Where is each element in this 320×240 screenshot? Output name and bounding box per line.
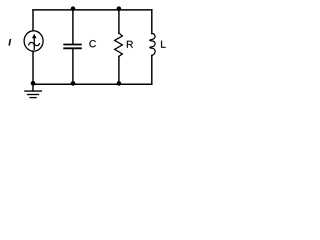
wire capacitor bottom lead bbox=[72, 49, 74, 84]
ground bar 2 bbox=[28, 94, 39, 96]
current source arrowhead bbox=[32, 34, 37, 38]
node dot top resistor bbox=[117, 6, 122, 11]
resistor R zigzag bbox=[115, 33, 123, 56]
node dot top capacitor bbox=[71, 6, 76, 11]
label I bbox=[8, 39, 11, 46]
wire inductor top lead bbox=[151, 10, 153, 34]
wire resistor top lead bbox=[118, 10, 120, 33]
current source sine wave bbox=[29, 42, 40, 45]
label L bbox=[161, 41, 165, 48]
ground bar 3 bbox=[30, 97, 36, 99]
current source arrow shaft bbox=[33, 38, 35, 49]
node dot bottom capacitor bbox=[71, 81, 76, 86]
node dot bottom resistor bbox=[117, 81, 122, 86]
label C bbox=[89, 40, 95, 47]
node dot ground junction bbox=[31, 81, 36, 86]
wire bottom rail bbox=[33, 83, 152, 85]
label R bbox=[127, 41, 133, 48]
wire capacitor top lead bbox=[72, 10, 74, 44]
ground bar 1 bbox=[25, 90, 41, 92]
wire inductor bottom lead bbox=[151, 55, 153, 84]
ground stub bbox=[32, 84, 34, 91]
inductor L coil bbox=[150, 34, 155, 56]
wire current-source top lead bbox=[32, 10, 34, 31]
wire top rail bbox=[33, 9, 152, 11]
capacitor C bottom plate bbox=[64, 47, 81, 49]
capacitor C top plate bbox=[64, 44, 81, 46]
wire current-source bottom lead bbox=[32, 52, 34, 85]
current source I circle bbox=[24, 31, 43, 51]
wire resistor bottom lead bbox=[118, 56, 120, 84]
